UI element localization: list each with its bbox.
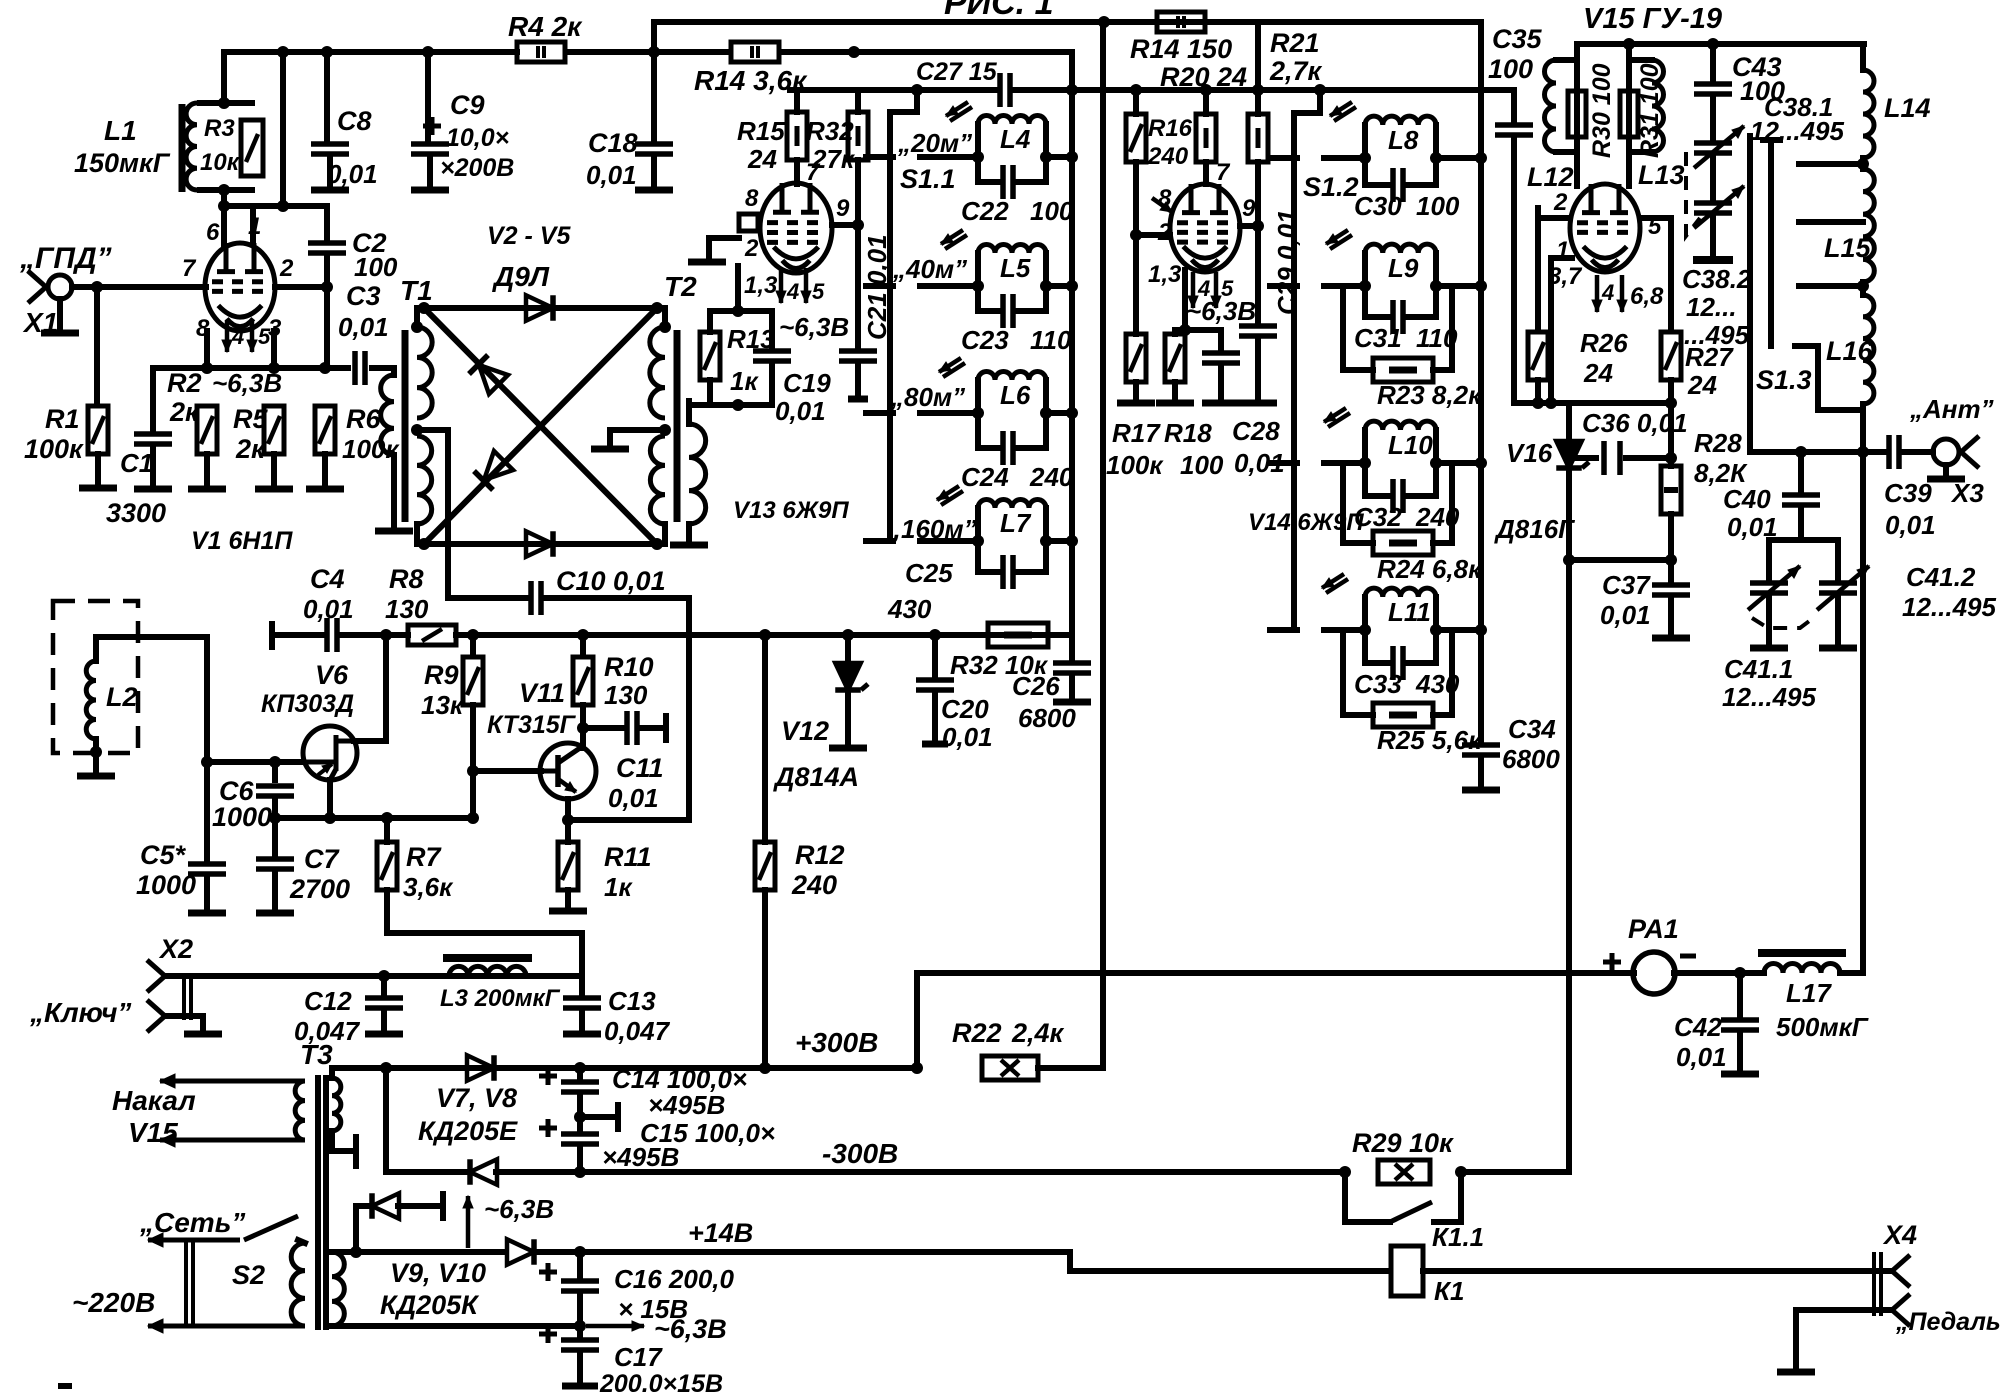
- wire C13 drop: [579, 976, 585, 994]
- label 4 V15: [1601, 280, 1614, 305]
- label X3: [1950, 478, 1984, 508]
- inductor L5 of band filter 40м: [978, 245, 1046, 287]
- ring corner junctions: [418, 302, 663, 550]
- svg-text:V6: V6: [315, 660, 349, 690]
- inductor L3 200мкГ with core: [443, 958, 532, 976]
- terminal bar mid tap: [615, 1102, 621, 1132]
- wire output filter 40м stub b: [1324, 283, 1365, 289]
- label КП303Д: [261, 690, 354, 718]
- svg-text:~220В: ~220В: [72, 1287, 155, 1318]
- wire V1 pin2 to C2/C3 node: [275, 284, 327, 290]
- inductor L8 of output filter 20м: [1365, 116, 1436, 158]
- wire L3 to C13 corner: [526, 973, 582, 979]
- svg-text:L1: L1: [104, 115, 137, 146]
- label R5 value 2к: [235, 434, 266, 464]
- label L2: [106, 682, 138, 712]
- wire anode riser left: [1574, 44, 1580, 186]
- svg-text:С30: С30: [1354, 191, 1402, 221]
- wire C1 to ground: [150, 448, 156, 486]
- label C12 value 0,047: [294, 1016, 361, 1046]
- terminal bar HV bottom: [353, 1134, 359, 1169]
- wire tap stub 3: [1799, 283, 1863, 289]
- resistor R24 6,8к wirewound of output filter 80м: [1343, 463, 1452, 555]
- label 10к: [200, 149, 241, 176]
- resistor R12 240: [755, 842, 775, 890]
- label ~6,3В under V1: [212, 368, 282, 398]
- wire C9 from rail: [425, 52, 431, 140]
- R13 left vertical top: [707, 311, 713, 332]
- svg-text:V9, V10: V9, V10: [390, 1258, 486, 1288]
- wire C14..C15: [577, 1096, 583, 1130]
- wire S2 to primary: [298, 1240, 305, 1243]
- label C1: [120, 448, 153, 478]
- svg-text:24: 24: [1687, 370, 1717, 400]
- label C37: [1602, 570, 1651, 600]
- wire K1.1 right drop: [1434, 1172, 1461, 1222]
- capacitor С33 430 of output filter 160м: [1365, 630, 1436, 680]
- svg-text:R3: R3: [204, 115, 235, 142]
- label 5 V13: [812, 279, 825, 304]
- arrow ~6,3В up: [463, 1196, 473, 1248]
- svg-text:×495В: ×495В: [648, 1090, 725, 1120]
- svg-text:~6,3В: ~6,3В: [484, 1194, 554, 1224]
- wire C43..C38.1: [1710, 98, 1716, 138]
- connector X3 (antenna socket): [1933, 436, 1979, 468]
- capacitor C17 electrolytic: [539, 1325, 599, 1350]
- wire meter line right: [1674, 970, 1764, 976]
- connector X1 (coax socket): [28, 271, 79, 303]
- svg-text:0,01: 0,01: [327, 159, 378, 189]
- svg-text:0,01: 0,01: [775, 396, 826, 426]
- label R28: [1694, 428, 1742, 458]
- wire R17 to ground: [1133, 382, 1139, 400]
- label L11: [1388, 597, 1431, 627]
- svg-text:РИС. 1: РИС. 1: [944, 0, 1054, 22]
- label 5: [258, 324, 271, 349]
- capacitor С22 100 of band filter 20м: [978, 157, 1046, 199]
- node emitter: [562, 814, 574, 826]
- wire relay line right: [1423, 1268, 1892, 1274]
- connector double bar mains: [186, 1241, 193, 1326]
- wire C38.2 to bar: [1710, 217, 1716, 256]
- label „160м": [887, 514, 977, 544]
- label „Ключ": [29, 997, 131, 1028]
- label R2 value 2к: [169, 397, 200, 427]
- wire emitter loop: [568, 598, 689, 820]
- svg-text:110: 110: [1030, 325, 1072, 355]
- heater arrows V14: [1188, 272, 1221, 308]
- wire R11 top: [565, 820, 571, 842]
- wire C36 left lead: [1569, 455, 1596, 461]
- svg-text:С41.1: С41.1: [1724, 654, 1793, 684]
- label R27 value 24: [1687, 370, 1717, 400]
- wire R26 bottom: [1535, 380, 1541, 403]
- arrow mains bottom: [148, 1319, 305, 1333]
- svg-text:0,01: 0,01: [1600, 600, 1651, 630]
- capacitor C16 electrolytic: [539, 1263, 599, 1291]
- label С33: [1354, 669, 1402, 699]
- inductor L12: [1545, 60, 1578, 152]
- transformer T3 HV winding: [332, 1078, 341, 1131]
- label C37 value 0,01: [1600, 600, 1651, 630]
- svg-text:7: 7: [182, 255, 197, 282]
- resistor R14 3,6к horizontal: [731, 42, 779, 62]
- label C2 value 100: [354, 252, 398, 282]
- svg-text:R7: R7: [406, 842, 442, 872]
- wire anode line y44: [1577, 41, 1864, 47]
- svg-text:Х4: Х4: [1882, 1220, 1917, 1250]
- label L16: [1826, 336, 1874, 366]
- label К1.1: [1432, 1222, 1484, 1252]
- label L14: [1884, 93, 1931, 123]
- svg-text:3300: 3300: [106, 498, 166, 528]
- wire R15 bottom to V13 pin7: [794, 160, 800, 184]
- diode V16 Д816Г zener: [1556, 441, 1589, 468]
- wire S1.1 right bus: [1069, 53, 1075, 635]
- label R18 value 100: [1180, 450, 1224, 480]
- label C13 value 0,047: [604, 1016, 671, 1046]
- label C16 200,0: [614, 1264, 735, 1294]
- wire band filter 40м tap stub b: [920, 283, 978, 289]
- ground under C1: [134, 486, 172, 493]
- label R32: [806, 116, 854, 146]
- wire C17 bottom: [577, 1354, 583, 1382]
- wire band filter 160м tap stub right: [1046, 538, 1072, 544]
- svg-text:V13 6Ж9П: V13 6Ж9П: [733, 497, 849, 524]
- label C41.1 value: [1722, 682, 1817, 712]
- svg-text:V2 - V5: V2 - V5: [487, 222, 571, 250]
- label „ГПД" input name: [19, 242, 112, 275]
- label R32 value 27к: [811, 144, 856, 174]
- wire R16 to pin2 node: [1133, 162, 1139, 334]
- label К1: [1434, 1276, 1464, 1306]
- wire R15 top lead: [794, 90, 800, 112]
- svg-text:КД205Е: КД205Е: [418, 1116, 518, 1146]
- label T1: [400, 275, 433, 306]
- label С22 value: [1030, 196, 1074, 226]
- wire T2 center tap to ground stub: [610, 430, 665, 446]
- svg-text:R26: R26: [1580, 328, 1628, 358]
- inductor L9 of output filter 40м: [1365, 244, 1436, 286]
- label КД205К: [380, 1290, 480, 1320]
- label R31 100 vertical: [1636, 63, 1664, 158]
- wire V1 pin8 down: [204, 331, 210, 368]
- resistor R18 100: [1165, 334, 1185, 382]
- label C17: [614, 1342, 663, 1372]
- switch arrow 20м: [946, 102, 972, 121]
- svg-text:С17: С17: [614, 1342, 663, 1372]
- wire pin2 bar down to R26: [1535, 218, 1541, 330]
- wire band filter 20м tap stub b: [920, 154, 978, 160]
- svg-text:L2: L2: [106, 682, 138, 712]
- capacitor C21 0,01: [839, 351, 877, 361]
- node pin9 V14: [1252, 220, 1264, 232]
- label L17: [1786, 978, 1832, 1008]
- svg-text:L5: L5: [1000, 253, 1031, 283]
- wire gate line: [207, 759, 303, 765]
- label C19 value 0,01: [775, 396, 826, 426]
- wire S1.3 common vertical: [1747, 136, 1753, 452]
- svg-text:240: 240: [1147, 143, 1189, 170]
- transformer T1 right winding lower: [417, 436, 432, 524]
- transformer T2 core: [674, 330, 681, 522]
- wire rail y52 R14..corner: [781, 49, 1072, 55]
- capacitor C37 0,01: [1652, 585, 1690, 595]
- wire band filter 40м tap stub a: [866, 283, 893, 289]
- wire base line: [473, 768, 541, 774]
- label R26: [1580, 328, 1628, 358]
- connector X4 (pedal jack): [1874, 1252, 1910, 1326]
- svg-text:12...495: 12...495: [1722, 682, 1817, 712]
- node C16 tap: [350, 1246, 586, 1258]
- wire C2 vertical: [324, 206, 330, 241]
- inductor L13: [1629, 60, 1664, 152]
- svg-text:100к: 100к: [1106, 450, 1164, 480]
- wire V12 drop: [845, 635, 851, 662]
- label V2-V5: [487, 222, 571, 250]
- label С32 value: [1415, 502, 1460, 532]
- label C18 value 0,01: [586, 160, 637, 190]
- wire V8 feed drop: [386, 1068, 466, 1172]
- svg-text:L4: L4: [1000, 124, 1031, 154]
- wire C3 to T1: [372, 365, 390, 371]
- junction C9 on rail: [422, 46, 434, 58]
- label R32 10к: [950, 650, 1049, 680]
- wire 6,3 line: [332, 1323, 580, 1329]
- svg-text:L7: L7: [1000, 508, 1032, 538]
- label C42 value 0,01: [1676, 1042, 1727, 1072]
- resistor R15 24: [787, 112, 807, 160]
- label C34: [1508, 714, 1556, 744]
- resistor R23 8,2к wirewound of output filter 40м: [1343, 286, 1452, 382]
- wire T2 secondary top to R13 loop: [686, 401, 692, 424]
- label R28 value 8,2К: [1694, 458, 1748, 488]
- svg-text:R28: R28: [1694, 428, 1742, 458]
- transformer T3 LV winding: [332, 1252, 344, 1326]
- transformer T1 core: [402, 330, 409, 522]
- wire R22 to anode bus riser: [1038, 22, 1103, 1068]
- label R10: [604, 652, 654, 682]
- diode V9: [372, 1193, 399, 1219]
- nodes output filter 40м: [1359, 280, 1487, 292]
- label R27: [1685, 342, 1734, 372]
- diode V3 on falling diagonal: [469, 355, 508, 394]
- pin 8 arrow V14: [1152, 198, 1172, 212]
- diode V8: [470, 1159, 497, 1185]
- svg-text:Д816Г: Д816Г: [1494, 514, 1575, 544]
- capacitor C39 0,01 series: [1889, 435, 1899, 469]
- label C36 0,01: [1582, 408, 1688, 438]
- node C15 on minus rail: [574, 1166, 586, 1178]
- inductor L16: [1863, 295, 1874, 404]
- label Д814А: [773, 762, 859, 792]
- capacitor C8 0,01: [311, 144, 349, 154]
- wire pin5 stub: [1640, 218, 1671, 330]
- wire X3 to ground: [1943, 465, 1949, 475]
- svg-text:V15 ГУ-19: V15 ГУ-19: [1583, 3, 1722, 35]
- inductor L1 150мкГ with core bar: [182, 103, 197, 192]
- capacitor C43 100: [1694, 84, 1732, 94]
- label L15: [1824, 233, 1872, 263]
- svg-text:„Ключ”: „Ключ”: [29, 997, 131, 1028]
- ground under C34: [1462, 787, 1500, 794]
- capacitor C10 0,01 series: [531, 581, 541, 615]
- wire R5 to ground: [271, 454, 277, 486]
- wire S1.2 common bus: [1291, 113, 1297, 630]
- ground under C8: [311, 187, 349, 194]
- label T3: [300, 1039, 333, 1070]
- wire C41.1 drop: [1766, 540, 1772, 578]
- svg-text:L16: L16: [1826, 336, 1874, 366]
- wire V8 to minus rail: [496, 1169, 580, 1175]
- label C42: [1674, 1012, 1722, 1042]
- svg-text:С27 15: С27 15: [916, 58, 998, 86]
- label S1.2: [1303, 172, 1359, 202]
- wire V6 drain to bus: [354, 635, 386, 741]
- label R11: [604, 842, 652, 872]
- switch S2 blade: [244, 1216, 298, 1240]
- capacitor C15 electrolytic: [539, 1119, 599, 1144]
- svg-text:R15: R15: [737, 116, 785, 146]
- label C38.1: [1764, 92, 1833, 122]
- transformer T3 core: [318, 1075, 326, 1330]
- label C20: [941, 694, 989, 724]
- resistor R16 240: [1126, 114, 1146, 162]
- svg-text:-300В: -300В: [822, 1138, 898, 1169]
- wire R12 bottom to +300 rail: [762, 890, 768, 1068]
- resistor R27 24: [1661, 332, 1681, 380]
- wire output filter 20м stub right: [1436, 155, 1481, 161]
- label S1.3: [1756, 365, 1812, 395]
- wire V1 pin3 down: [271, 331, 277, 368]
- label „80м": [890, 382, 965, 412]
- label C11 value 0,01: [608, 783, 659, 813]
- label С30: [1354, 191, 1402, 221]
- label R29 10к: [1352, 1128, 1454, 1158]
- wire C5 to ground: [204, 878, 210, 910]
- svg-text:С25: С25: [905, 558, 953, 588]
- label R1: [45, 404, 80, 434]
- wire V12 to ground: [845, 692, 851, 744]
- junctions on cathode line: [201, 362, 331, 374]
- node R16/pin2: [1130, 229, 1142, 241]
- wire line y90 left part: [790, 87, 995, 93]
- capacitor C3 0,01 series: [355, 351, 365, 385]
- svg-text:6,8: 6,8: [1630, 283, 1664, 310]
- wire C42 to ground: [1737, 1034, 1743, 1070]
- wire grid line y403: [1514, 400, 1671, 406]
- svg-text:С40: С40: [1723, 484, 1771, 514]
- wire C7 to ground: [272, 873, 278, 910]
- node 6,3 line: [574, 1320, 586, 1332]
- label C41.1: [1724, 654, 1793, 684]
- resistor R13 1к: [700, 332, 720, 380]
- label L1: [104, 115, 137, 146]
- ground under R17: [1117, 400, 1155, 407]
- wire output filter 40м stub a: [1270, 283, 1297, 289]
- pin 8 label V13: [745, 185, 759, 212]
- ground under C18: [635, 187, 673, 194]
- wire band filter 80м tap stub b: [920, 410, 978, 416]
- label V15 ГУ-19: [1583, 3, 1722, 35]
- wire C11 to bar: [640, 725, 666, 731]
- label C41.2: [1906, 562, 1976, 592]
- heater arrows V13: [776, 268, 811, 303]
- svg-text:+14В: +14В: [688, 1218, 753, 1248]
- wire output filter 160м stub b: [1324, 627, 1365, 633]
- wire C6 bottom to y818: [272, 800, 278, 857]
- resistor R32 27к: [848, 112, 868, 160]
- capacitor C1: [134, 434, 172, 444]
- label R5: [233, 404, 268, 434]
- wire output filter 80м stub a: [1270, 460, 1297, 466]
- resistor R1 100к: [88, 406, 108, 454]
- svg-text:130: 130: [385, 594, 429, 624]
- label 3,7 V15: [1548, 263, 1583, 290]
- wire V1 pin1 riser to top rail: [280, 52, 286, 206]
- svg-text:×495В: ×495В: [602, 1142, 679, 1172]
- svg-text:9: 9: [836, 195, 850, 222]
- wire band filter 160м tap stub b: [920, 538, 978, 544]
- svg-text:С13: С13: [608, 986, 656, 1016]
- wire R28 bottom: [1668, 514, 1674, 580]
- plus sign at PA1: [1603, 953, 1621, 971]
- svg-text:~6,3В: ~6,3В: [654, 1314, 727, 1344]
- label R16 value 240: [1147, 143, 1189, 170]
- wire R7 top: [384, 818, 390, 842]
- svg-text:С37: С37: [1602, 570, 1651, 600]
- capacitor C35 100: [1495, 125, 1533, 135]
- label L7: [1000, 508, 1032, 538]
- svg-text:С18: С18: [588, 128, 638, 158]
- svg-text:R4 2к: R4 2к: [508, 11, 583, 42]
- wire C18 to ground: [651, 158, 657, 186]
- tube V14 6Ж9П pentode: [1170, 184, 1240, 272]
- diode V2 on top edge: [526, 295, 553, 321]
- svg-text:~6,3В: ~6,3В: [779, 312, 849, 342]
- wire R18 to ground: [1172, 382, 1178, 400]
- capacitor C12 0,047: [365, 998, 403, 1008]
- wire C41.2 to ground: [1835, 597, 1841, 644]
- ground under R1: [79, 485, 117, 492]
- pin 2 label V15: [1553, 189, 1568, 216]
- node cathode loop: [732, 305, 744, 411]
- label V16: [1506, 438, 1553, 468]
- svg-text:100к: 100к: [24, 434, 84, 464]
- svg-text:С23: С23: [961, 325, 1009, 355]
- svg-text:2: 2: [1553, 189, 1568, 216]
- pin 1 label: [248, 213, 261, 240]
- wire L1/R3 top tie: [200, 100, 252, 106]
- label S1.1: [900, 164, 956, 194]
- label L8: [1388, 125, 1419, 155]
- wire C41.1 to ground: [1766, 597, 1772, 644]
- label L17 value 500мкГ: [1776, 1012, 1869, 1042]
- label R13: [727, 324, 775, 354]
- wire R6 to ground: [322, 454, 328, 486]
- resistor R20 24 box: [1196, 114, 1216, 162]
- svg-text:R14 150: R14 150: [1130, 34, 1232, 64]
- label C35: [1492, 24, 1543, 54]
- transformer T1 right winding upper: [417, 327, 432, 418]
- wire R10 bottom to collector: [580, 705, 586, 748]
- wire L2 bottom to ground: [93, 739, 99, 772]
- wire -300 feed riser x1571: [1566, 560, 1572, 1172]
- wire rail y52 R4..x654: [566, 49, 654, 55]
- label C28 value 0,01: [1234, 448, 1285, 478]
- dashed gang link of C38: [1686, 152, 1700, 236]
- junction pin1 riser on rail: [277, 46, 289, 58]
